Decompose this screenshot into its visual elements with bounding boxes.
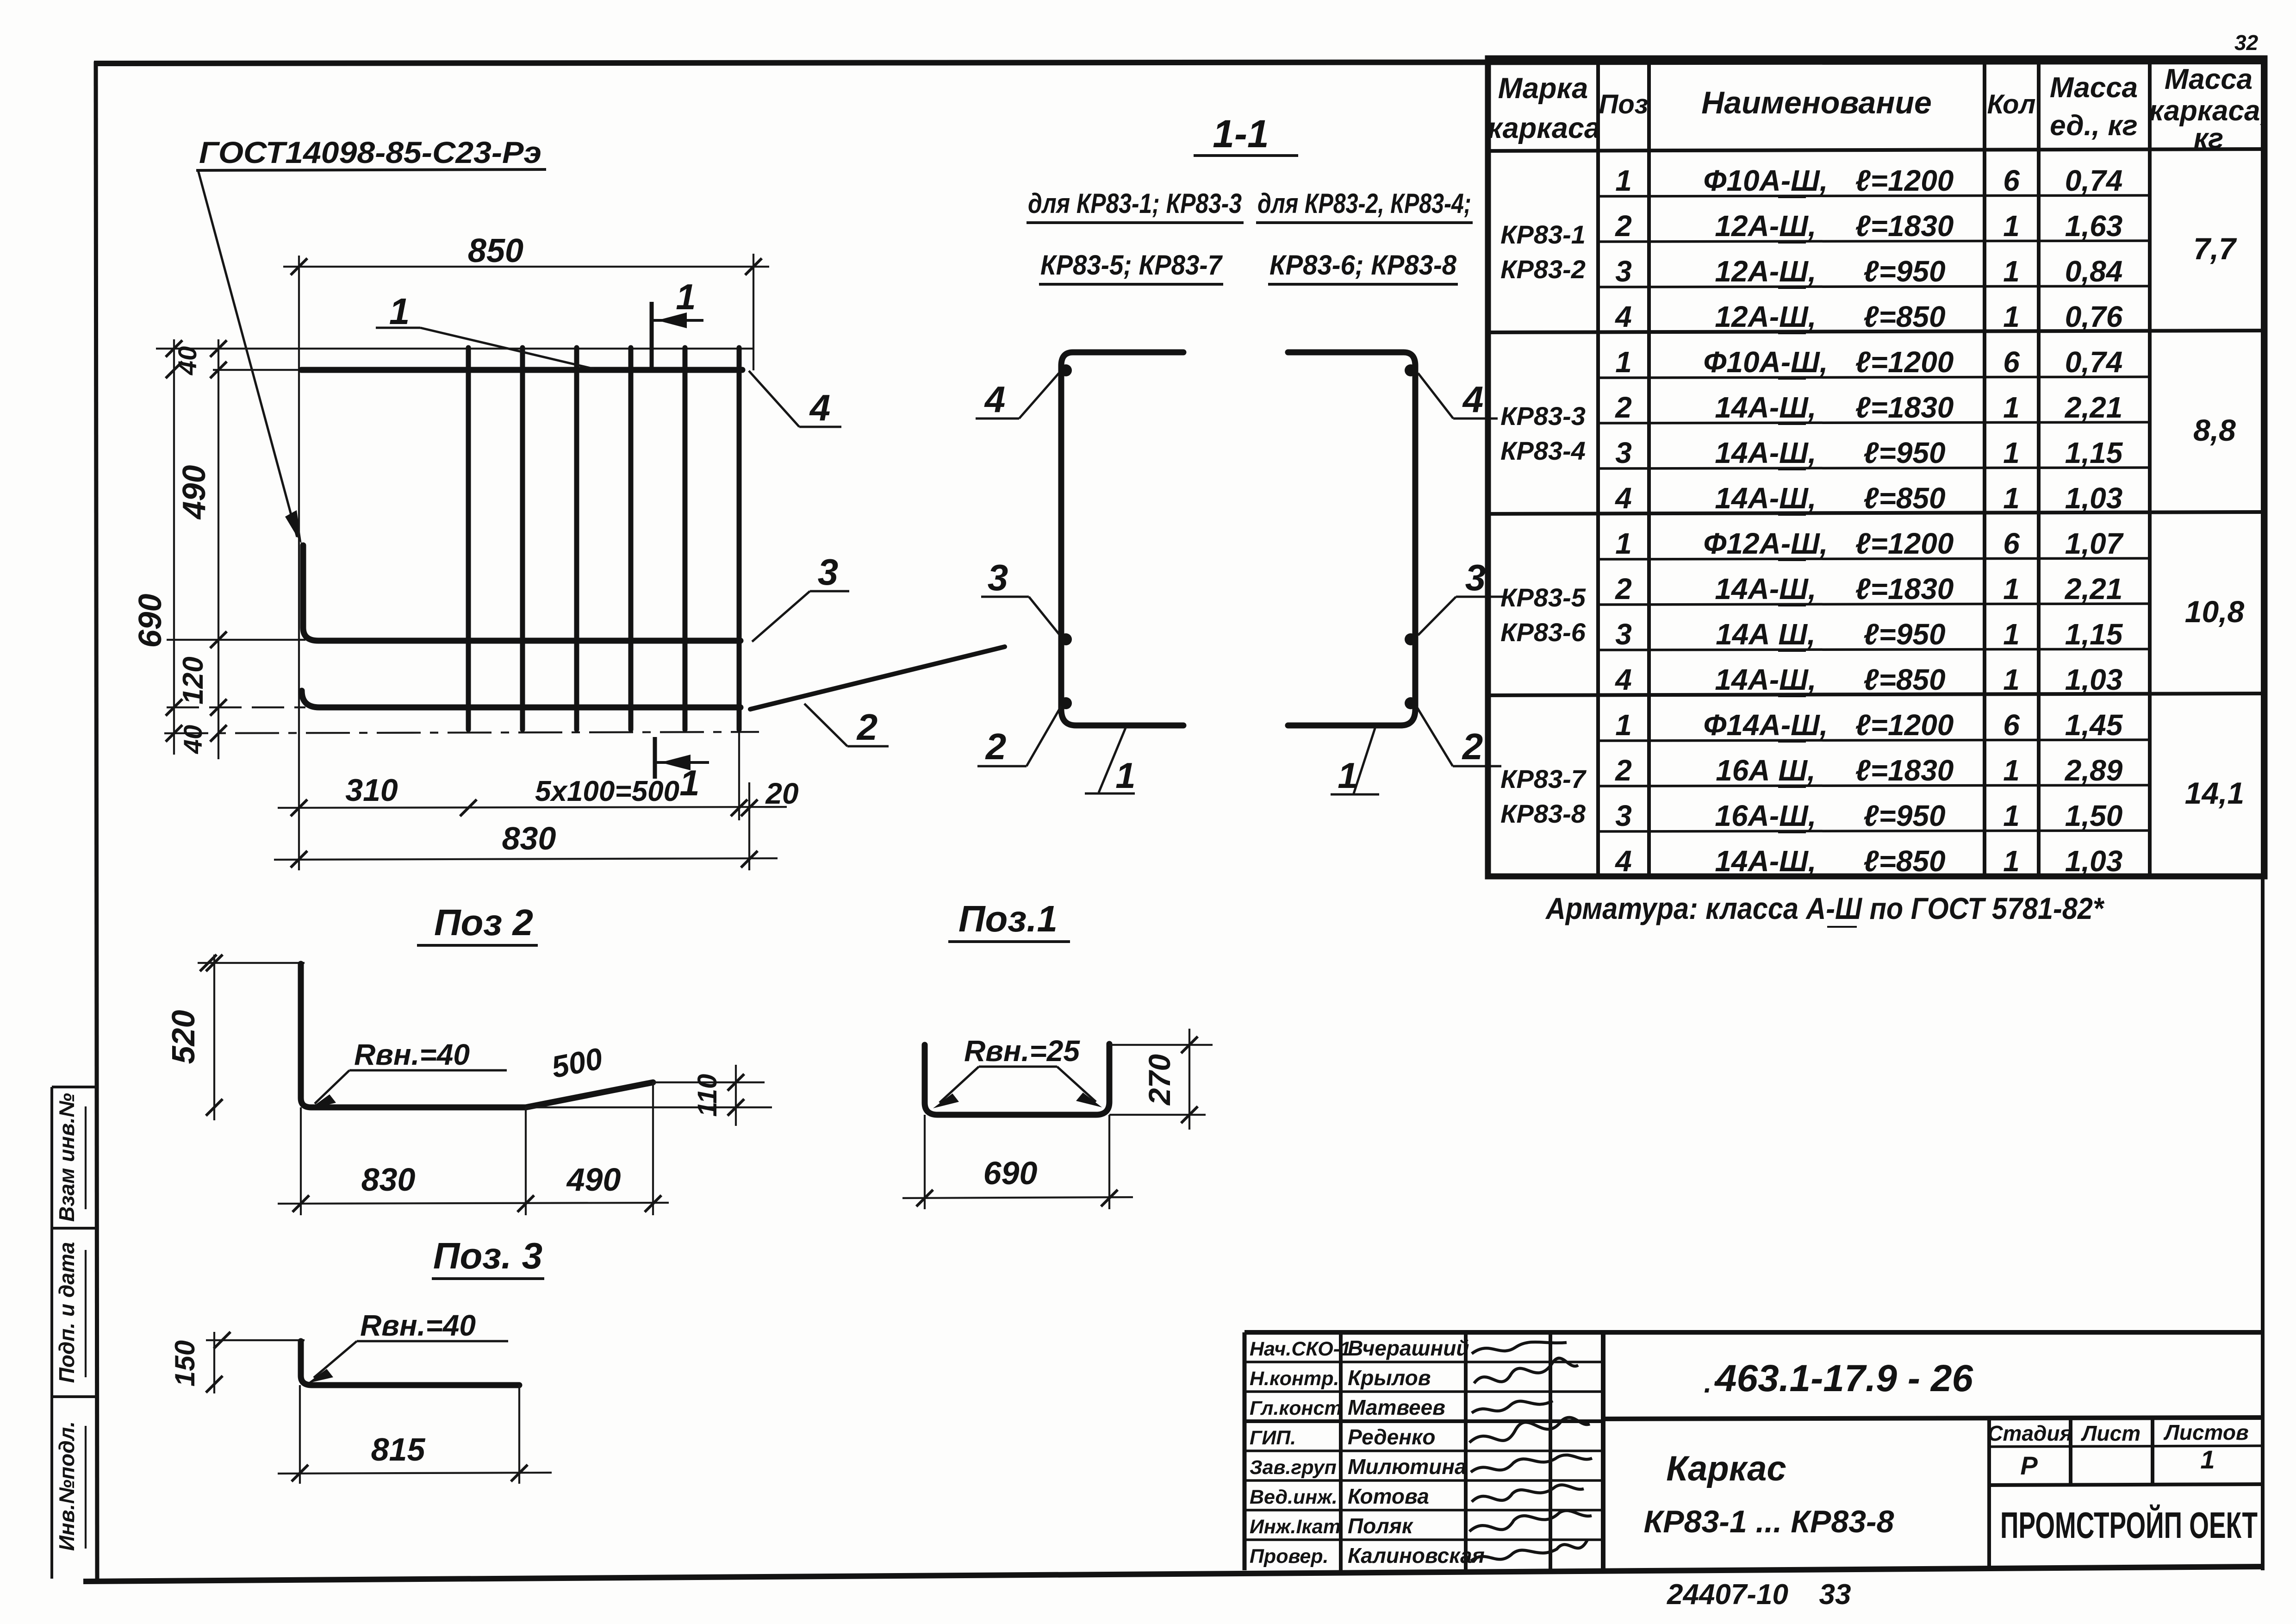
svg-text:463.1-17.9 - 26: 463.1-17.9 - 26 xyxy=(1715,1357,1974,1399)
svg-text:.·: .· xyxy=(1704,1368,1721,1399)
svg-text:1: 1 xyxy=(1615,164,1632,197)
svg-text:2: 2 xyxy=(856,706,878,748)
svg-text:КР83-7: КР83-7 xyxy=(1500,764,1587,793)
svg-text:ед., кг: ед., кг xyxy=(2050,110,2138,142)
table inner row lines xyxy=(1598,195,2150,831)
svg-text:5х100=500: 5х100=500 xyxy=(535,775,679,807)
svg-text:1: 1 xyxy=(2003,209,2020,243)
left section U-bar xyxy=(1061,352,1183,725)
svg-text:1: 1 xyxy=(2003,391,2020,424)
svg-text:Гл.конст: Гл.конст xyxy=(1250,1397,1342,1419)
title block left edge xyxy=(1243,1332,1247,1570)
svg-text:1: 1 xyxy=(2200,1445,2215,1474)
vertical bar 6 xyxy=(737,348,742,730)
staff row Н.контр. xyxy=(1250,1358,1578,1390)
svg-text:КР83-2: КР83-2 xyxy=(1500,255,1586,284)
extension line vertical left edge x646 xyxy=(298,256,300,870)
svg-text:6: 6 xyxy=(2003,164,2020,197)
svg-text:150: 150 xyxy=(169,1340,200,1387)
poz1 690 dim line xyxy=(902,1197,1133,1198)
svg-text:1,15: 1,15 xyxy=(2065,436,2123,469)
svg-text:310: 310 xyxy=(345,773,398,808)
svg-text:3: 3 xyxy=(818,551,839,593)
svg-text:Поз: Поз xyxy=(1599,89,1649,119)
poz2 top extension line xyxy=(198,962,305,964)
left section label 2 xyxy=(977,706,1061,767)
svg-text:1: 1 xyxy=(2003,481,2020,515)
poz2 extension verticals bottom xyxy=(300,1107,302,1215)
svg-text:1: 1 xyxy=(676,276,696,317)
svg-text:1: 1 xyxy=(2003,754,2020,787)
table header line xyxy=(1488,149,2265,151)
title block column lines xyxy=(1341,1332,1603,1570)
poz1 270 dim line xyxy=(1188,1029,1190,1130)
poz3 extension verticals xyxy=(299,1385,301,1484)
svg-text:каркаса: каркаса xyxy=(1487,112,1600,144)
svg-text:для КР83-1; КР83-3: для КР83-1; КР83-3 xyxy=(1028,188,1242,219)
label 1 elevation xyxy=(376,291,594,369)
svg-text:1: 1 xyxy=(2003,300,2020,333)
chain line bottom y1584 xyxy=(164,732,759,733)
GOST note underline xyxy=(196,169,546,170)
svg-text:ПРОМСТРОЙП ОЕКТ: ПРОМСТРОЙП ОЕКТ xyxy=(2000,1504,2258,1546)
svg-text:Ф12А-Ш,: Ф12А-Ш, xyxy=(1703,527,1828,560)
svg-text:КР83-3: КР83-3 xyxy=(1500,401,1586,431)
svg-text:Зав.груп: Зав.груп xyxy=(1250,1456,1337,1479)
staff row Инж.Iкат xyxy=(1250,1511,1592,1538)
table row 1 xyxy=(1615,164,2122,197)
right section label 2 xyxy=(1416,706,1501,767)
svg-text:1-1: 1-1 xyxy=(1213,112,1269,156)
GOST leader line xyxy=(198,170,297,537)
svg-text:1,45: 1,45 xyxy=(2065,708,2123,742)
left section dot bar 2 xyxy=(1060,697,1072,709)
svg-text:2,89: 2,89 xyxy=(2065,754,2123,787)
section flag 1 top xyxy=(652,276,703,368)
svg-text:ℓ=850: ℓ=850 xyxy=(1863,481,1945,515)
svg-text:Р: Р xyxy=(2020,1451,2038,1480)
table row 3 xyxy=(1615,255,2122,288)
svg-text:Котова: Котова xyxy=(1348,1484,1429,1508)
svg-text:1,15: 1,15 xyxy=(2065,618,2123,651)
table row 5 xyxy=(1615,345,2122,379)
svg-text:КР83-6: КР83-6 xyxy=(1500,618,1586,647)
svg-text:850: 850 xyxy=(468,232,523,269)
svg-text:Лист: Лист xyxy=(2081,1421,2140,1445)
svg-text:Поз 2: Поз 2 xyxy=(434,902,533,943)
svg-text:КР83-6; КР83-8: КР83-6; КР83-8 xyxy=(1269,250,1457,281)
svg-text:14А-Ш,: 14А-Ш, xyxy=(1715,481,1816,515)
poz1 270 extension lines xyxy=(1109,1044,1213,1046)
svg-text:Калиновская: Калиновская xyxy=(1348,1543,1485,1568)
svg-text:1: 1 xyxy=(1615,345,1632,379)
table row 14 xyxy=(1615,754,2122,787)
svg-text:33: 33 xyxy=(1819,1579,1851,1611)
svg-text:270: 270 xyxy=(1142,1054,1176,1106)
stadiya list listov verticals xyxy=(1989,1419,2153,1570)
right section U-bar xyxy=(1288,352,1415,725)
svg-text:14А-Ш,: 14А-Ш, xyxy=(1715,844,1816,878)
poz3 R note xyxy=(307,1309,508,1383)
svg-text:0,74: 0,74 xyxy=(2065,164,2123,197)
left section dot bar 3 xyxy=(1060,633,1072,645)
svg-text:14А-Ш,: 14А-Ш, xyxy=(1715,436,1816,469)
svg-text:3: 3 xyxy=(1615,799,1632,832)
svg-text:Листов: Листов xyxy=(2163,1420,2248,1444)
svg-text:КР83-1: КР83-1 xyxy=(1500,220,1586,249)
right section label 1 flag xyxy=(1331,727,1379,796)
svg-text:ℓ=1830: ℓ=1830 xyxy=(1855,391,1954,424)
staff row Провер. xyxy=(1250,1540,1587,1568)
poz3 815 dim line xyxy=(278,1473,552,1474)
svg-text:Ф14А-Ш,: Ф14А-Ш, xyxy=(1703,708,1828,742)
table row 13 xyxy=(1615,708,2123,742)
svg-text:Инж.Iкат: Инж.Iкат xyxy=(1250,1516,1341,1538)
table row 12 xyxy=(1614,663,2122,696)
svg-text:1: 1 xyxy=(2003,436,2020,469)
svg-text:6: 6 xyxy=(2003,527,2020,560)
svg-text:для КР83-2, КР83-4;: для КР83-2, КР83-4; xyxy=(1257,188,1471,219)
svg-text:1,07: 1,07 xyxy=(2065,527,2124,560)
svg-text:ℓ=950: ℓ=950 xyxy=(1863,255,1945,288)
left section label 3 xyxy=(981,557,1060,635)
svg-text:ℓ=1200: ℓ=1200 xyxy=(1855,164,1954,197)
svg-text:Н.контр.: Н.контр. xyxy=(1250,1368,1339,1390)
svg-text:3: 3 xyxy=(1465,557,1486,598)
svg-text:1: 1 xyxy=(1615,708,1632,742)
svg-text:ℓ=950: ℓ=950 xyxy=(1863,799,1945,832)
table outer frame xyxy=(1488,58,2265,876)
svg-text:14А-Ш,: 14А-Ш, xyxy=(1715,572,1816,606)
svg-text:Крылов: Крылов xyxy=(1348,1366,1431,1390)
svg-text:0,84: 0,84 xyxy=(2065,255,2123,288)
svg-text:Арматура: класса А-Ш по ГОСТ 5: Арматура: класса А-Ш по ГОСТ 5781-82* xyxy=(1545,891,2105,925)
svg-text:КР83-8: КР83-8 xyxy=(1500,799,1586,828)
bent bar poz2 in elevation (vertical leg + middle bar position 3) xyxy=(303,545,740,641)
svg-text:4: 4 xyxy=(984,379,1006,420)
staff row Вед.инж. xyxy=(1250,1484,1584,1508)
bottom bar position 2 xyxy=(302,691,740,707)
svg-text:8,8: 8,8 xyxy=(2193,413,2236,447)
title block row lines xyxy=(1244,1362,1603,1540)
poz1 R note xyxy=(933,1034,1102,1108)
poz2 bottom dim line xyxy=(278,1203,669,1204)
table row 11 xyxy=(1615,618,2123,651)
extension line top bar left y799 xyxy=(213,369,305,371)
svg-text:Rвн.=40: Rвн.=40 xyxy=(360,1309,476,1342)
poz3 top extension line xyxy=(206,1339,305,1341)
poz1 extension verticals xyxy=(924,1115,926,1209)
left section label 1 flag xyxy=(1085,727,1136,796)
table column lines xyxy=(1598,58,2150,876)
svg-text:Вчерашний: Вчерашний xyxy=(1348,1336,1469,1360)
svg-text:830: 830 xyxy=(361,1162,416,1198)
label 3 elevation xyxy=(752,551,849,642)
svg-text:Стадия: Стадия xyxy=(1987,1421,2072,1445)
svg-text:Матвеев: Матвеев xyxy=(1348,1395,1445,1419)
svg-text:КР83-5; КР83-7: КР83-5; КР83-7 xyxy=(1040,250,1223,281)
table row 15 xyxy=(1615,799,2122,832)
svg-text:3: 3 xyxy=(988,557,1008,598)
svg-text:2,21: 2,21 xyxy=(2065,391,2123,424)
svg-text:690: 690 xyxy=(983,1155,1038,1191)
svg-text:ℓ=950: ℓ=950 xyxy=(1863,436,1945,469)
extension line right 850 x1628 xyxy=(753,254,754,370)
svg-text:110: 110 xyxy=(692,1074,722,1117)
svg-text:1: 1 xyxy=(2003,255,2020,288)
vertical bar 4 xyxy=(628,348,634,730)
svg-text:Масса: Масса xyxy=(2050,72,2138,104)
svg-text:2,21: 2,21 xyxy=(2065,572,2123,606)
svg-text:каркаса,: каркаса, xyxy=(2149,95,2268,127)
svg-text:0,76: 0,76 xyxy=(2065,300,2123,333)
svg-text:1: 1 xyxy=(389,291,410,332)
svg-text:2: 2 xyxy=(1462,726,1483,767)
poz2 520 dim line xyxy=(213,955,215,1120)
title block outer top line xyxy=(1244,1330,2263,1335)
svg-text:20: 20 xyxy=(765,777,798,810)
svg-text:Провер.: Провер. xyxy=(1250,1545,1329,1568)
svg-text:7,7: 7,7 xyxy=(2193,231,2237,266)
svg-text:1: 1 xyxy=(2003,799,2020,832)
svg-text:4: 4 xyxy=(1614,481,1632,515)
svg-text:3: 3 xyxy=(1615,618,1632,651)
svg-text:ℓ=850: ℓ=850 xyxy=(1863,300,1945,333)
staff row Гл.конст xyxy=(1250,1395,1553,1419)
extension line vertical left 690 dim xyxy=(173,339,175,755)
left margin underlines xyxy=(85,1106,87,1549)
svg-text:490: 490 xyxy=(566,1162,621,1198)
svg-text:6: 6 xyxy=(2003,345,2020,379)
svg-text:Rвн.=40: Rвн.=40 xyxy=(354,1038,470,1071)
title block row line GIP thick xyxy=(1244,1419,1603,1423)
svg-text:Взам инв.№: Взам инв.№ xyxy=(55,1093,79,1222)
svg-text:14,1: 14,1 xyxy=(2185,776,2244,810)
section title underline xyxy=(1194,154,1298,157)
vertical bar 3 xyxy=(574,348,579,730)
extension line middle bar left y1382 xyxy=(167,639,305,641)
poz2 R note xyxy=(309,1038,507,1109)
svg-text:ℓ=1830: ℓ=1830 xyxy=(1855,572,1954,606)
dim line 830 xyxy=(274,858,778,860)
svg-text:ГОСТ14098-85-С23-Рэ: ГОСТ14098-85-С23-Рэ xyxy=(199,135,541,169)
svg-text:1,63: 1,63 xyxy=(2065,209,2123,243)
extension line right 830 x1619 xyxy=(748,782,750,870)
svg-text:ℓ=1830: ℓ=1830 xyxy=(1855,209,1954,243)
svg-text:690: 690 xyxy=(132,594,168,648)
svg-text:4: 4 xyxy=(1614,844,1632,878)
armature note underline on Sh xyxy=(1827,926,1857,928)
right section label 4 xyxy=(1418,373,1498,420)
svg-text:40: 40 xyxy=(178,725,207,754)
svg-text:4: 4 xyxy=(1462,379,1484,420)
stadiya values bottom xyxy=(1989,1484,2263,1485)
svg-text:1: 1 xyxy=(1338,755,1357,796)
svg-text:14А Ш,: 14А Ш, xyxy=(1716,618,1816,651)
svg-text:2: 2 xyxy=(1615,391,1632,424)
right section dot bar 2 xyxy=(1405,697,1417,709)
right section label 3 xyxy=(1418,557,1503,635)
svg-text:1,03: 1,03 xyxy=(2065,844,2123,878)
svg-text:0,74: 0,74 xyxy=(2065,345,2123,379)
svg-text:КР83-4: КР83-4 xyxy=(1500,436,1586,465)
svg-text:Ф10А-Ш,: Ф10А-Ш, xyxy=(1703,164,1828,197)
table group lines xyxy=(1488,331,2265,695)
table row 2 xyxy=(1615,209,2122,243)
svg-text:2: 2 xyxy=(1615,572,1632,606)
staff row Зав.груп xyxy=(1250,1455,1592,1479)
dim line row 310 / 5x100 / 20 xyxy=(278,807,787,808)
svg-text:Нач.СКО-1: Нач.СКО-1 xyxy=(1250,1338,1351,1360)
right section dot bar 3 xyxy=(1405,633,1417,645)
table row 4 xyxy=(1614,300,2122,333)
dim ticks left chained xyxy=(166,340,227,742)
svg-text:6: 6 xyxy=(2003,708,2020,742)
GOST leader arrowhead xyxy=(285,510,302,544)
long pointer line to section xyxy=(750,647,1005,709)
svg-text:Вед.инж.: Вед.инж. xyxy=(1250,1486,1338,1508)
svg-text:Rвн.=25: Rвн.=25 xyxy=(964,1034,1080,1068)
svg-text:520: 520 xyxy=(165,1010,201,1064)
title block doc box divider xyxy=(1603,1418,2263,1419)
vertical bar 2 xyxy=(520,348,525,730)
svg-text:24407-10: 24407-10 xyxy=(1667,1579,1788,1611)
dim line 850 xyxy=(283,266,769,268)
svg-text:1: 1 xyxy=(2003,663,2020,696)
svg-text:40: 40 xyxy=(173,346,202,375)
svg-text:1: 1 xyxy=(1115,755,1135,796)
svg-text:1,50: 1,50 xyxy=(2065,799,2123,832)
svg-text:кг: кг xyxy=(2194,123,2224,155)
poz2 bent bar xyxy=(301,964,653,1107)
staff row ГИП. xyxy=(1250,1418,1590,1449)
table row 10 xyxy=(1615,572,2122,606)
vertical bar 5 xyxy=(683,348,688,730)
svg-text:815: 815 xyxy=(371,1431,426,1468)
section flag 1 bottom xyxy=(655,737,709,803)
svg-text:1: 1 xyxy=(1615,527,1632,560)
right section dot bar 4 xyxy=(1405,364,1417,376)
left section label 4 xyxy=(976,373,1059,420)
svg-text:ℓ=1200: ℓ=1200 xyxy=(1855,527,1954,560)
svg-text:14А-Ш,: 14А-Ш, xyxy=(1715,391,1816,424)
svg-text:Поляк: Поляк xyxy=(1348,1514,1414,1538)
poz3 bent bar xyxy=(301,1341,519,1385)
svg-text:2: 2 xyxy=(1615,209,1632,243)
svg-text:12А-Ш,: 12А-Ш, xyxy=(1715,209,1816,243)
svg-text:32: 32 xyxy=(2234,31,2259,55)
stadiya header bottom xyxy=(1989,1446,2263,1447)
left section dot bar 4 xyxy=(1060,364,1072,376)
top bar position 4 xyxy=(301,367,742,373)
svg-text:ℓ=1200: ℓ=1200 xyxy=(1855,708,1954,742)
svg-text:3: 3 xyxy=(1615,436,1632,469)
poz2 thin line top right xyxy=(653,1081,765,1083)
table row 16 xyxy=(1614,844,2122,878)
svg-text:ℓ=950: ℓ=950 xyxy=(1863,618,1945,651)
extension line top y753 xyxy=(156,348,753,350)
svg-text:Кол: Кол xyxy=(1987,89,2036,119)
svg-text:Инв.№подл.: Инв.№подл. xyxy=(55,1421,79,1551)
svg-text:4: 4 xyxy=(809,387,831,428)
extension line vertical chained dims xyxy=(218,339,219,759)
svg-text:1,03: 1,03 xyxy=(2065,663,2123,696)
svg-text:3: 3 xyxy=(1615,255,1632,288)
svg-text:ℓ=1830: ℓ=1830 xyxy=(1855,754,1954,787)
svg-text:2: 2 xyxy=(985,726,1007,767)
svg-text:120: 120 xyxy=(177,656,209,704)
svg-text:КР83-5: КР83-5 xyxy=(1500,583,1586,612)
label 4 elevation xyxy=(749,371,841,428)
table row 6 xyxy=(1615,391,2122,424)
svg-text:830: 830 xyxy=(502,820,556,856)
svg-text:490: 490 xyxy=(176,465,212,520)
table row 7 xyxy=(1615,436,2123,469)
svg-text:1: 1 xyxy=(2003,572,2020,606)
svg-text:Марка: Марка xyxy=(1498,72,1588,105)
svg-text:1,03: 1,03 xyxy=(2065,481,2123,515)
svg-text:Реденко: Реденко xyxy=(1348,1425,1435,1449)
svg-text:16А Ш,: 16А Ш, xyxy=(1716,754,1816,787)
poz2 thin line bottom right xyxy=(526,1106,772,1108)
svg-text:Наименование: Наименование xyxy=(1701,85,1932,120)
svg-text:Поз.1: Поз.1 xyxy=(958,898,1058,939)
svg-text:КР83-1 ... КР83-8: КР83-1 ... КР83-8 xyxy=(1644,1504,1894,1539)
svg-text:Каркас: Каркас xyxy=(1666,1449,1786,1488)
svg-text:ГИП.: ГИП. xyxy=(1250,1427,1296,1449)
poz1 U-bar xyxy=(925,1044,1109,1115)
svg-text:14А-Ш,: 14А-Ш, xyxy=(1715,663,1816,696)
svg-text:Ф10А-Ш,: Ф10А-Ш, xyxy=(1703,345,1828,379)
extension line bottom bar left y1528 xyxy=(167,706,305,708)
poz3 150 dim hints xyxy=(213,1332,215,1393)
staff row Нач.СКО-1 xyxy=(1250,1336,1567,1360)
svg-text:10,8: 10,8 xyxy=(2185,594,2245,629)
svg-text:ℓ=1200: ℓ=1200 xyxy=(1855,345,1954,379)
svg-text:ℓ=850: ℓ=850 xyxy=(1863,844,1945,878)
table row 9 xyxy=(1615,527,2124,560)
vertical bar 1 xyxy=(466,348,471,730)
extension line right bar end x1597 xyxy=(738,711,740,820)
svg-text:4: 4 xyxy=(1614,663,1632,696)
svg-text:Поз. 3: Поз. 3 xyxy=(433,1235,542,1276)
svg-text:1: 1 xyxy=(2003,844,2020,878)
svg-text:12А-Ш,: 12А-Ш, xyxy=(1715,300,1816,333)
svg-text:1: 1 xyxy=(679,762,699,803)
svg-text:12А-Ш,: 12А-Ш, xyxy=(1715,255,1816,288)
svg-text:ℓ=850: ℓ=850 xyxy=(1863,663,1945,696)
left margin stamp cells xyxy=(52,1087,97,1579)
svg-text:Подп. и дата: Подп. и дата xyxy=(55,1242,79,1383)
svg-text:1: 1 xyxy=(2003,618,2020,651)
svg-text:16А-Ш,: 16А-Ш, xyxy=(1715,799,1816,832)
svg-text:4: 4 xyxy=(1614,300,1632,333)
svg-text:2: 2 xyxy=(1615,754,1632,787)
table row 8 xyxy=(1614,481,2122,515)
svg-text:Масса: Масса xyxy=(2165,63,2252,95)
svg-text:Милютина: Милютина xyxy=(1348,1455,1467,1479)
poz2 110 dim line xyxy=(735,1065,737,1126)
label 2 elevation xyxy=(804,704,889,748)
